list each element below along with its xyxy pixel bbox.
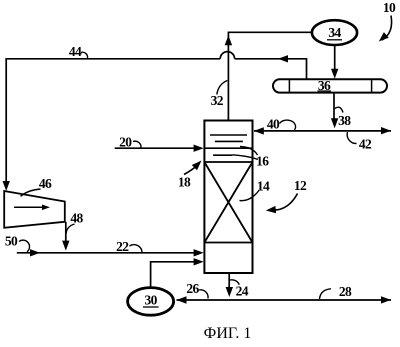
wire 26 / 28 bottoms line <box>177 299 392 301</box>
column 12 shell <box>204 121 252 274</box>
label 28 <box>320 284 352 299</box>
svg-text:48: 48 <box>70 211 83 226</box>
arrowhead wire 42 right <box>381 127 391 134</box>
label 22 <box>116 239 142 254</box>
svg-text:42: 42 <box>359 137 372 152</box>
svg-text:18: 18 <box>178 175 191 190</box>
arrowhead flow on wire 44 <box>278 55 288 62</box>
vessel 36 (horizontal drum) <box>273 78 387 93</box>
arrowhead wire 40 into column <box>254 127 264 134</box>
arrowhead wire 48 down <box>62 241 69 251</box>
label 10 with curved arrow <box>379 0 396 42</box>
arrowhead wire 20 <box>194 145 204 152</box>
wire 38 drum 36 bottom outlet <box>333 93 335 121</box>
arrowhead wire 22 into column <box>194 249 204 256</box>
svg-text:ФИГ. 1: ФИГ. 1 <box>204 325 252 342</box>
packing 14 (X section) <box>204 162 252 243</box>
compressor 46 (trapezoid) <box>4 191 65 228</box>
arrowhead into vessel 36 <box>331 69 338 79</box>
section divider top of packing <box>204 161 252 163</box>
label 24 <box>230 280 249 299</box>
svg-text:38: 38 <box>338 113 351 128</box>
label 44 <box>69 44 88 59</box>
svg-text:24: 24 <box>236 283 249 298</box>
svg-text:34: 34 <box>328 25 341 40</box>
drum 34 (ellipse) <box>312 20 357 45</box>
svg-text:40: 40 <box>267 117 280 132</box>
svg-text:10: 10 <box>383 0 396 15</box>
svg-text:28: 28 <box>339 284 352 299</box>
arrowhead into column from drum 30 line <box>194 258 204 265</box>
label 20 <box>119 134 141 149</box>
svg-text:46: 46 <box>39 176 52 191</box>
svg-text:22: 22 <box>116 239 129 254</box>
wire 24 column bottoms outlet <box>228 273 230 289</box>
arrowhead wire 26 into drum 30 <box>177 296 187 303</box>
label 38 <box>335 107 351 128</box>
wire 40 / 42 reflux line <box>254 130 391 132</box>
arrowhead wire 24 down <box>226 287 233 297</box>
label 48 <box>66 211 83 234</box>
svg-text:26: 26 <box>186 281 199 296</box>
svg-text:44: 44 <box>69 44 82 59</box>
arrowhead wire 38 down <box>331 118 338 128</box>
label 12 with curved arrow to column <box>266 178 307 213</box>
label 26 <box>186 281 208 299</box>
drum 30 (ellipse) <box>128 288 174 316</box>
label 16 with two leader curves to trays <box>232 147 269 169</box>
label 14 with leader to packing <box>240 179 270 201</box>
wire 48 compressor outlet down <box>65 222 67 241</box>
wire from drum 30 up into column <box>151 262 194 288</box>
label 40 <box>267 117 296 132</box>
arrowhead flow on wire 50 <box>30 249 40 256</box>
label 42 <box>347 132 372 152</box>
svg-text:12: 12 <box>294 178 307 193</box>
svg-text:20: 20 <box>119 134 132 149</box>
trays 16 in column top section <box>204 135 252 155</box>
svg-text:30: 30 <box>144 293 157 308</box>
wire 32 column overhead to drum 34 <box>228 32 312 120</box>
wire 34 to 36 <box>334 45 336 70</box>
label 46 with leader <box>21 176 52 196</box>
svg-text:50: 50 <box>5 233 18 248</box>
label 50 <box>5 233 30 252</box>
wire 20 feed into column <box>115 147 194 149</box>
label 32 <box>211 81 228 109</box>
wire 44 recycle line (drum 36 top to compressor 46 inlet, with hop over wire 32) <box>6 52 306 182</box>
arrowhead wire44 into compressor <box>3 181 10 191</box>
wire 50 / 22 feed line into column bottom <box>17 252 194 254</box>
arrowhead wire 28 right <box>381 296 391 303</box>
label 18 with arrow to column wall <box>178 161 202 190</box>
svg-text:16: 16 <box>256 154 269 169</box>
arrowhead wire 32 up <box>225 35 232 45</box>
svg-text:32: 32 <box>211 93 224 108</box>
